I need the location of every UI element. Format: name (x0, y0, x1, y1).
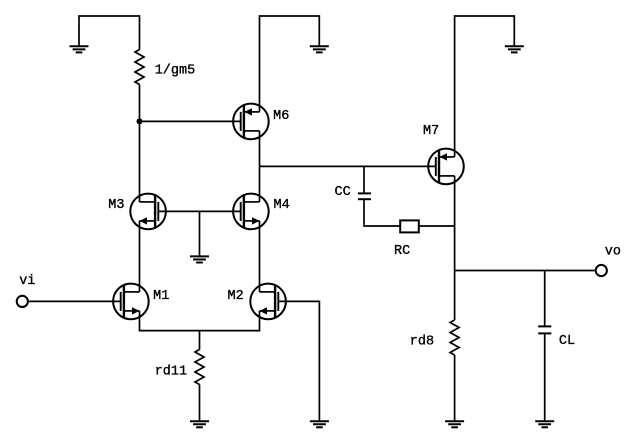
ground top-right (505, 46, 524, 52)
output terminal vo (596, 265, 607, 276)
wire output node horizontal to vo (455, 270, 596, 272)
ground top-middle (310, 46, 329, 52)
ground below CL (535, 421, 554, 427)
ground top-left (70, 46, 89, 52)
wire top-middle: M6 source up, over, down to ground (260, 16, 320, 112)
wire top-right: M7 source up, over, down to ground (455, 16, 515, 157)
svg-text:M6: M6 (273, 109, 289, 124)
ground below rd11 (190, 421, 209, 427)
svg-text:1/gm5: 1/gm5 (155, 64, 196, 79)
svg-text:M4: M4 (274, 198, 290, 213)
transistor M7 (PMOS) (428, 149, 464, 185)
svg-text:M2: M2 (228, 289, 244, 304)
resistor RC (box) (400, 220, 419, 232)
wire M3 gate to M4 gate (158, 210, 240, 212)
transistor M4 (NMOS) (233, 194, 269, 230)
transistor M1 (NMOS) (113, 284, 149, 320)
resistor 1/gm5 (135, 50, 144, 85)
svg-text:M3: M3 (108, 198, 124, 213)
resistor rd11 (195, 350, 204, 385)
svg-text:vi: vi (19, 274, 35, 289)
transistor M6 (PMOS) (233, 104, 269, 140)
wire CC bottom plate down and over to RC (364, 199, 400, 226)
capacitor CC (358, 193, 371, 199)
wire rd8 to ground (454, 355, 456, 421)
wire CC tap down from M7 gate line (363, 166, 365, 193)
wire common sources M1-M2 U shape (140, 311, 260, 331)
svg-text:rd8: rd8 (410, 334, 434, 349)
ground below M2 gate (310, 421, 329, 427)
wire RC to output rail (419, 225, 455, 227)
svg-text:M1: M1 (153, 289, 169, 304)
svg-text:CC: CC (335, 185, 351, 200)
wire M6 drain down to M4 drain (259, 131, 261, 202)
svg-text:M7: M7 (423, 124, 439, 139)
wire M7 drain down through RC node to rd8 top (454, 176, 456, 320)
svg-text:rd11: rd11 (155, 364, 187, 379)
wire resistor to M3 drain (139, 85, 141, 202)
ground below gate line (190, 256, 209, 262)
svg-text:vo: vo (605, 244, 621, 259)
input terminal vi (17, 296, 28, 307)
wire rd11 to ground (199, 385, 201, 422)
wire vi to M1 gate (28, 300, 121, 302)
wire CL tap down from output wire (544, 271, 546, 327)
wire M4 source to M2 drain (259, 221, 261, 292)
wire top-left L from ground up and over to 1/gm5 rail (79, 16, 140, 50)
svg-text:CL: CL (559, 334, 575, 349)
transistor M2 (NMOS, mirrored) (250, 284, 286, 320)
wire gate line down to ground (199, 211, 201, 256)
capacitor CL (538, 326, 551, 333)
wire M2 gate over and down to ground (278, 301, 319, 421)
wire tail node into rd11 (199, 331, 201, 350)
node dot at 1/gm5 bottom and M6 gate (137, 118, 143, 124)
resistor rd8 (450, 320, 459, 355)
wire M3 source to M1 drain (139, 221, 141, 292)
wire node to M6 gate (140, 120, 241, 122)
ground below rd8 (445, 421, 464, 427)
wire M6 drain node to M7 gate (260, 165, 436, 167)
transistor M3 (NMOS, mirrored) (130, 194, 166, 230)
wire CL to ground (544, 333, 546, 421)
svg-text:RC: RC (394, 244, 410, 259)
